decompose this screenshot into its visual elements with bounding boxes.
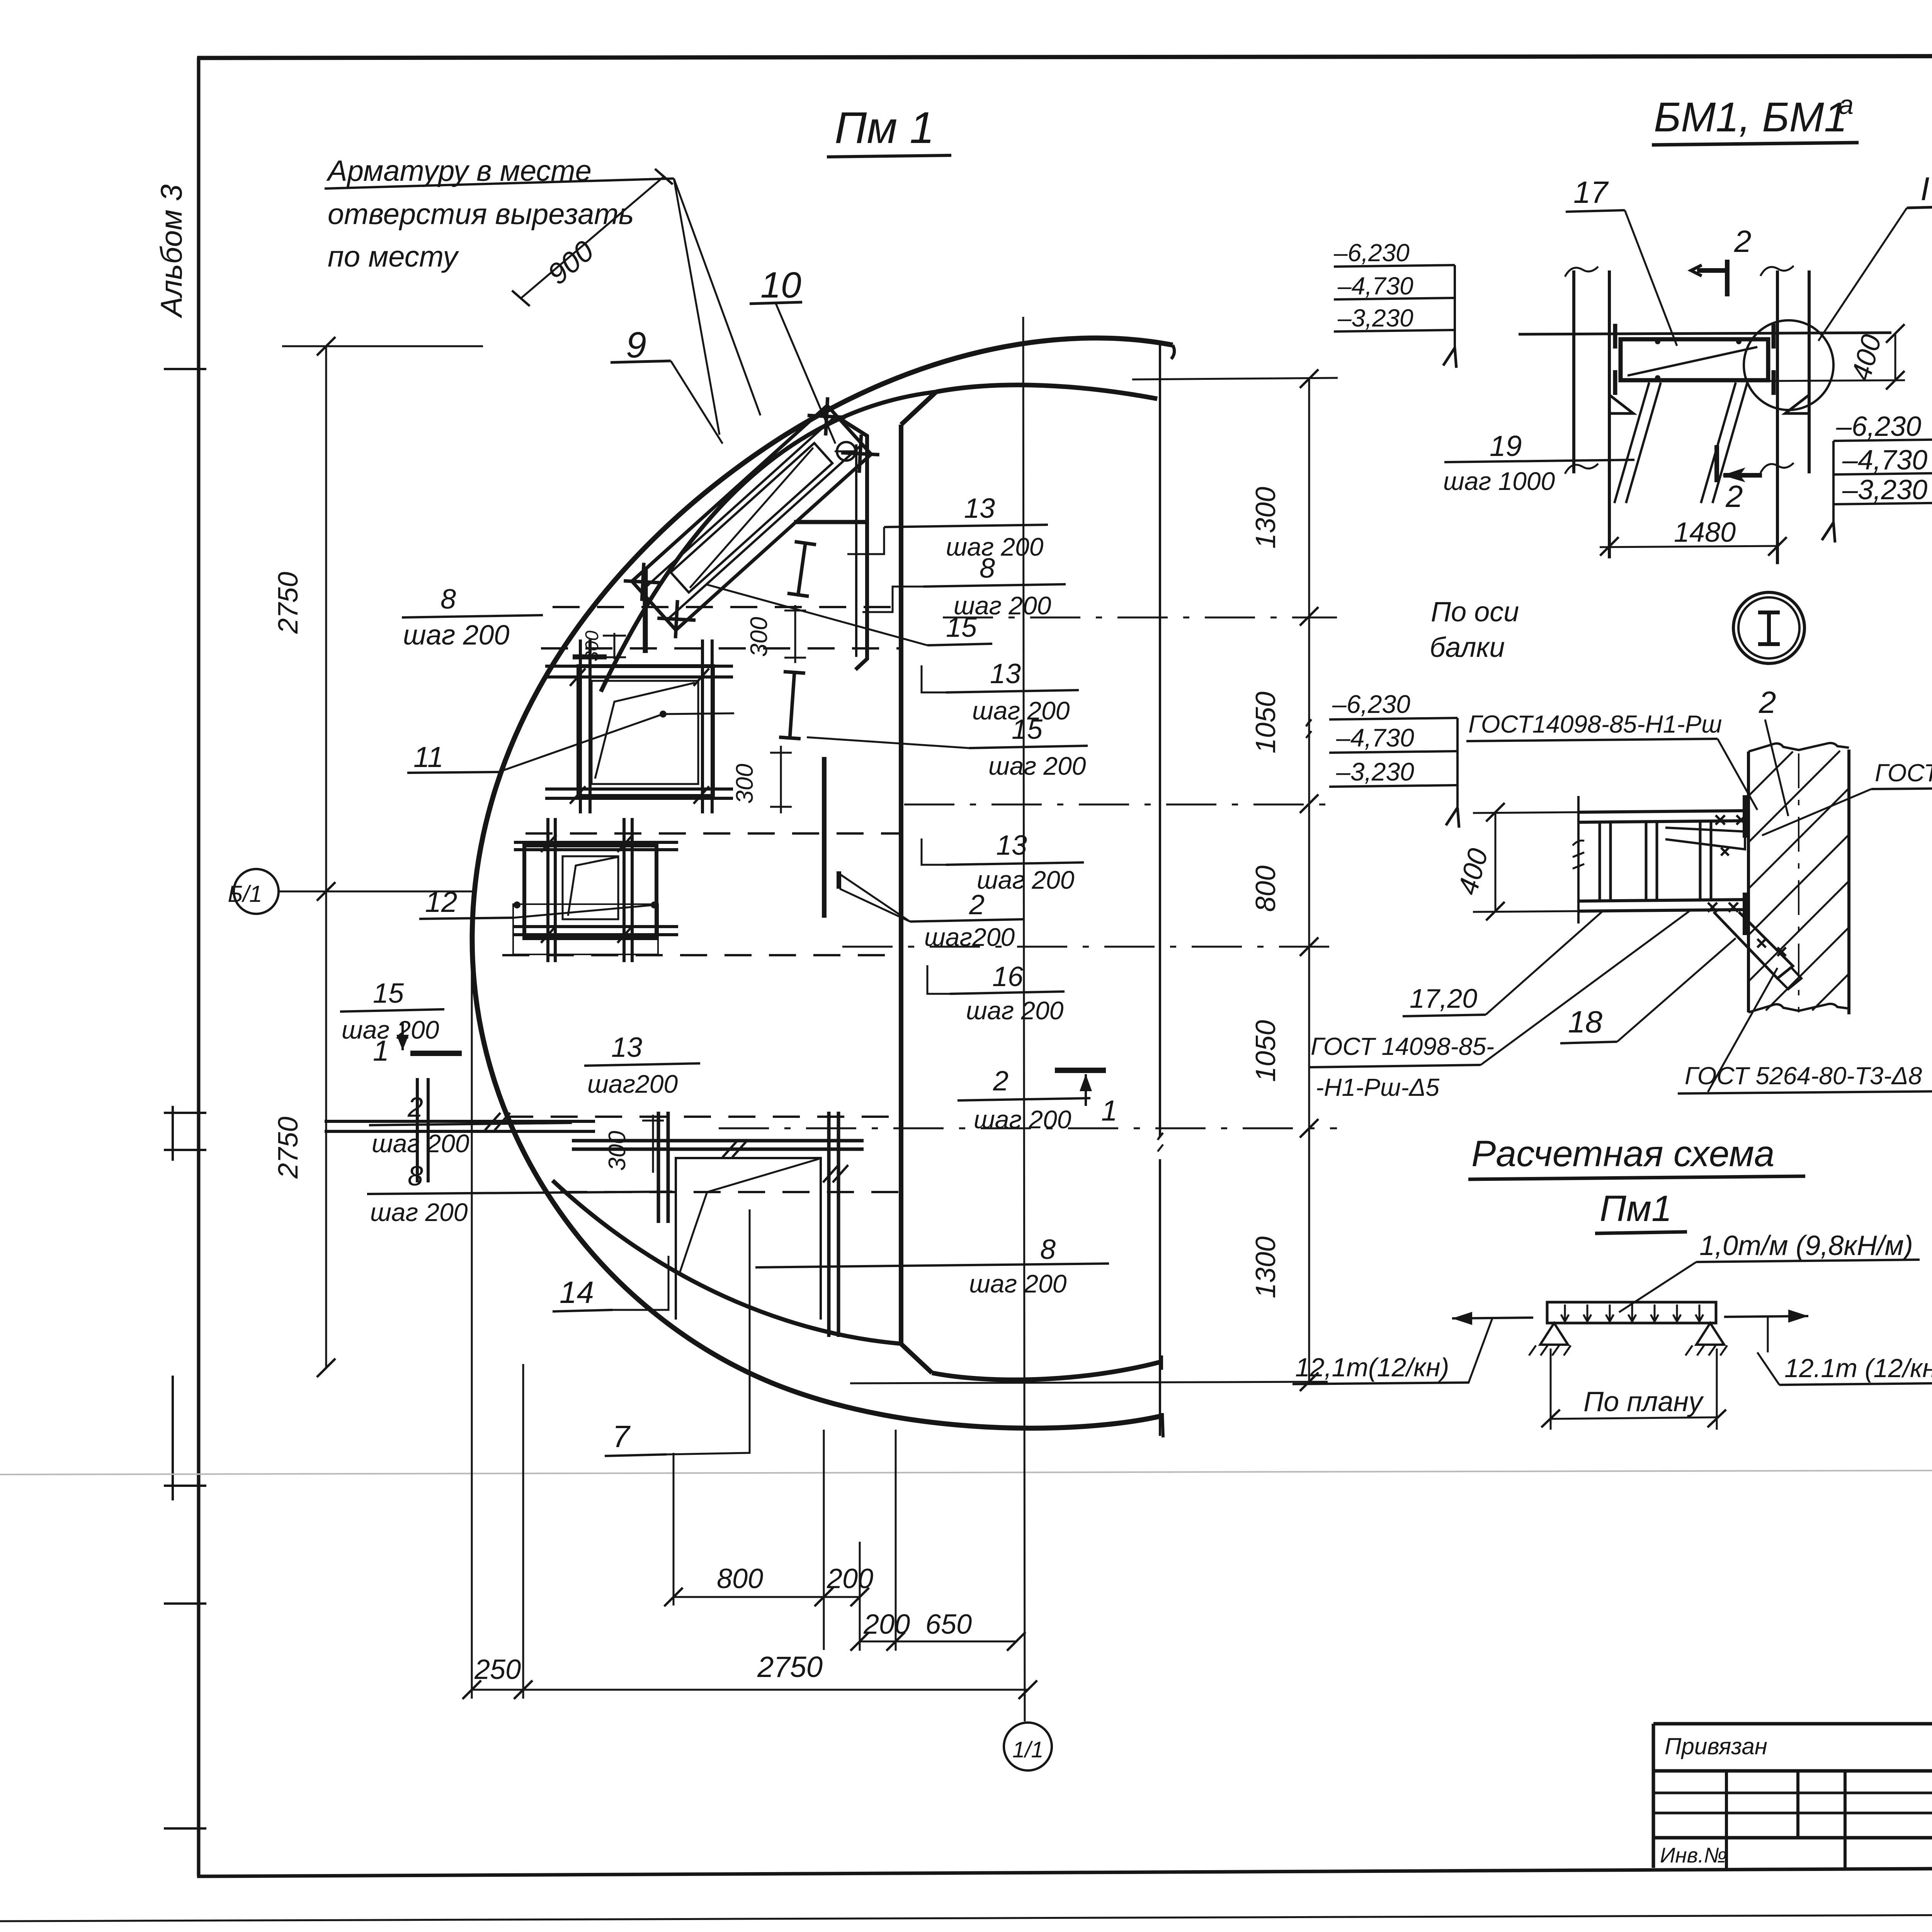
svg-text:13: 13 (964, 493, 995, 524)
svg-text:8: 8 (1040, 1234, 1056, 1265)
svg-text:300: 300 (582, 631, 602, 662)
svg-text:отверстия вырезать: отверстия вырезать (328, 198, 634, 231)
svg-text:18: 18 (1568, 1005, 1602, 1039)
svg-text:800: 800 (717, 1563, 763, 1594)
svg-text:–4,730: –4,730 (1842, 445, 1927, 476)
svg-text:–6,230: –6,230 (1333, 239, 1410, 267)
svg-text:а: а (1838, 90, 1854, 120)
svg-text:2: 2 (993, 1066, 1009, 1097)
svg-text:I: I (1920, 171, 1930, 207)
svg-text:ГОСТ 14098-85-: ГОСТ 14098-85- (1311, 1032, 1494, 1060)
svg-text:10: 10 (760, 265, 801, 306)
svg-text:11: 11 (413, 741, 444, 773)
svg-text:300: 300 (731, 764, 758, 804)
svg-text:ГОСТ 5264-80-Т3-Δ8: ГОСТ 5264-80-Т3-Δ8 (1685, 1062, 1922, 1090)
svg-text:Инв.№: Инв.№ (1660, 1843, 1727, 1867)
svg-text:–3,230: –3,230 (1842, 474, 1927, 505)
svg-text:17,20: 17,20 (1410, 983, 1477, 1014)
svg-text:–3,230: –3,230 (1336, 757, 1414, 786)
svg-text:–4,730: –4,730 (1336, 723, 1414, 752)
svg-text:12,1т(12/кн): 12,1т(12/кн) (1295, 1353, 1449, 1382)
svg-text:шаг 200: шаг 200 (966, 996, 1064, 1025)
svg-text:1/1: 1/1 (1012, 1737, 1044, 1762)
svg-text:8: 8 (408, 1161, 423, 1192)
svg-text:–4,730: –4,730 (1337, 272, 1413, 300)
svg-text:200: 200 (827, 1563, 873, 1594)
svg-text:Расчетная схема: Расчетная схема (1471, 1133, 1774, 1174)
svg-text:Пм1: Пм1 (1600, 1188, 1672, 1229)
svg-text:8: 8 (980, 553, 995, 584)
svg-text:шаг 200: шаг 200 (403, 620, 509, 651)
svg-text:шаг 200: шаг 200 (370, 1198, 468, 1226)
svg-text:шаг200: шаг200 (924, 923, 1015, 951)
svg-text:19: 19 (1490, 430, 1522, 462)
svg-text:1050: 1050 (1250, 692, 1281, 753)
svg-text:ГОСТ14098-85-Н1-Рш: ГОСТ14098-85-Н1-Рш (1468, 710, 1722, 738)
svg-text:1: 1 (373, 1034, 389, 1067)
svg-text:ГОСТ 5264-80-Т3-Δ5: ГОСТ 5264-80-Т3-Δ5 (1875, 759, 1932, 787)
svg-text:Привязан: Привязан (1665, 1733, 1767, 1759)
svg-text:7: 7 (612, 1419, 631, 1454)
svg-text:шаг 200: шаг 200 (977, 866, 1075, 894)
svg-text:13: 13 (611, 1032, 642, 1063)
svg-text:2: 2 (407, 1092, 423, 1123)
svg-text:шаг 200: шаг 200 (342, 1015, 439, 1044)
svg-text:Б/1: Б/1 (228, 881, 262, 907)
svg-text:шаг 1000: шаг 1000 (1443, 467, 1555, 495)
svg-text:балки: балки (1430, 632, 1505, 663)
svg-text:1300: 1300 (1250, 487, 1281, 549)
svg-text:650: 650 (925, 1609, 972, 1640)
svg-text:800: 800 (1250, 866, 1281, 912)
svg-text:12: 12 (425, 886, 457, 918)
svg-text:9: 9 (626, 325, 646, 366)
svg-text:15: 15 (946, 612, 977, 643)
svg-text:2: 2 (1759, 685, 1776, 719)
svg-text:13: 13 (996, 830, 1027, 861)
svg-text:По плану: По плану (1583, 1386, 1704, 1417)
svg-text:1050: 1050 (1250, 1020, 1281, 1082)
svg-text:По оси: По оси (1431, 597, 1519, 628)
svg-text:2750: 2750 (273, 572, 304, 634)
svg-text:15: 15 (1012, 714, 1043, 745)
svg-text:шаг 200: шаг 200 (988, 752, 1086, 780)
svg-text:2: 2 (1725, 479, 1743, 514)
svg-text:16: 16 (992, 961, 1024, 992)
svg-text:12.1т (12/кн): 12.1т (12/кн) (1784, 1354, 1932, 1383)
svg-text:шаг 200: шаг 200 (974, 1105, 1071, 1134)
svg-text:1,0т/м (9,8кН/м): 1,0т/м (9,8кН/м) (1699, 1230, 1913, 1261)
svg-text:300: 300 (604, 1131, 631, 1171)
svg-text:Альбом 3: Альбом 3 (154, 184, 188, 318)
svg-text:2: 2 (1734, 224, 1752, 259)
svg-text:13: 13 (990, 658, 1021, 689)
svg-text:Пм 1: Пм 1 (835, 103, 934, 153)
svg-text:2750: 2750 (273, 1117, 304, 1179)
svg-text:200: 200 (863, 1609, 910, 1640)
svg-text:17: 17 (1573, 175, 1609, 209)
svg-text:1300: 1300 (1250, 1236, 1281, 1298)
svg-text:15: 15 (373, 978, 404, 1009)
svg-text:шаг200: шаг200 (587, 1070, 678, 1098)
svg-text:–6,230: –6,230 (1332, 690, 1410, 718)
svg-text:1480: 1480 (1674, 517, 1736, 548)
svg-text:300: 300 (746, 617, 772, 657)
svg-text:14: 14 (560, 1275, 594, 1310)
svg-text:–6,230: –6,230 (1836, 411, 1921, 442)
svg-text:шаг 200: шаг 200 (969, 1269, 1067, 1298)
svg-text:–3,230: –3,230 (1337, 304, 1413, 332)
svg-text:1: 1 (1101, 1094, 1117, 1127)
svg-text:-Н1-Рш-Δ5: -Н1-Рш-Δ5 (1316, 1073, 1440, 1101)
svg-text:250: 250 (474, 1654, 521, 1685)
svg-text:2750: 2750 (757, 1651, 823, 1684)
svg-text:по месту: по месту (328, 240, 459, 273)
svg-text:8: 8 (440, 584, 456, 615)
svg-text:шаг 200: шаг 200 (372, 1129, 469, 1158)
svg-text:2: 2 (969, 889, 985, 920)
svg-text:БМ1, БМ1: БМ1, БМ1 (1654, 94, 1847, 140)
